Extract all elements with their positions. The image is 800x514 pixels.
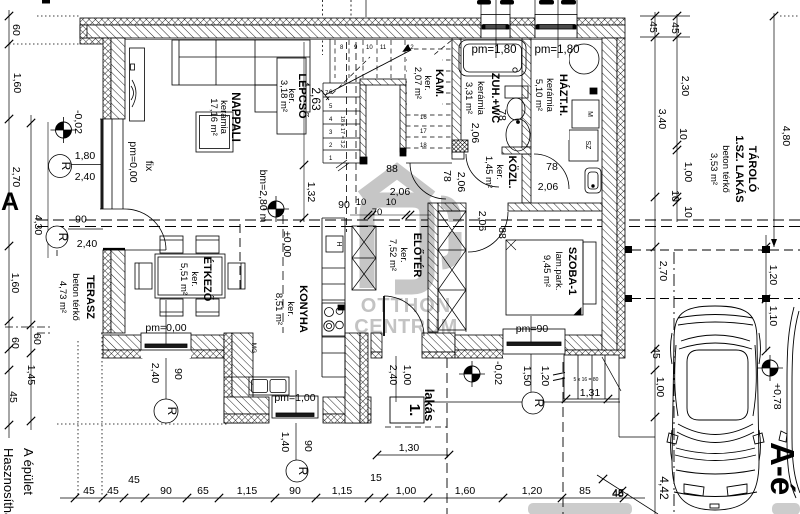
svg-text:1,10: 1,10	[767, 306, 779, 327]
svg-text:1,60: 1,60	[11, 73, 23, 94]
svg-text:MG: MG	[250, 343, 257, 353]
interior: ZUH/HAZT wall	[522, 38, 531, 147]
svg-text:beton térkő: beton térkő	[70, 273, 81, 321]
svg-text:R: R	[165, 407, 179, 416]
svg-text:45: 45	[612, 488, 624, 500]
coffee table	[196, 112, 233, 152]
svg-text:1,00: 1,00	[654, 377, 666, 398]
west terrace door 90	[125, 209, 166, 250]
svg-text:45: 45	[647, 21, 659, 33]
svg-text:pm=1,80: pm=1,80	[534, 44, 579, 56]
entrance level marker	[459, 361, 485, 387]
lower flight treads	[322, 83, 324, 163]
stair west boundary	[329, 39, 331, 83]
svg-text:85: 85	[579, 485, 591, 497]
svg-text:4,80: 4,80	[780, 126, 792, 147]
SZ appliance	[569, 130, 598, 161]
svg-text:1,20: 1,20	[539, 366, 551, 387]
svg-text:5 x 16 = 80: 5 x 16 = 80	[574, 377, 599, 383]
interior: KAM/ZUH wall	[452, 38, 461, 154]
bottom watermark slivers	[528, 503, 632, 514]
svg-text:2,40: 2,40	[387, 365, 399, 386]
svg-text:5,51 m²: 5,51 m²	[178, 263, 189, 295]
sink unit	[249, 377, 289, 395]
dotted leaders top left	[37, 15, 80, 17]
svg-text:1,45: 1,45	[25, 365, 37, 386]
svg-text:SZOBA-1: SZOBA-1	[566, 247, 578, 295]
svg-text:1.SZ. LAKÁS: 1.SZ. LAKÁS	[733, 135, 746, 202]
svg-text:1,40: 1,40	[279, 432, 291, 453]
dotted line top	[322, 0, 324, 55]
stove	[322, 303, 345, 336]
svg-text:9,45 m²: 9,45 m²	[541, 255, 552, 287]
svg-text:17,16 m²: 17,16 m²	[208, 98, 219, 136]
svg-text:ÉTKEZŐ: ÉTKEZŐ	[201, 257, 214, 302]
svg-text:90: 90	[160, 485, 172, 497]
svg-text:lam.park.: lam.park.	[553, 251, 564, 290]
svg-text:16: 16	[420, 115, 427, 121]
svg-text:3,53 m²: 3,53 m²	[708, 153, 719, 185]
north wall: brick (diag hatch)	[80, 25, 481, 38]
window W3 dining south (pm=0,00)	[141, 329, 191, 358]
svg-text:45: 45	[128, 474, 140, 486]
right lower dim line	[654, 252, 656, 514]
svg-text:2,30: 2,30	[679, 76, 691, 97]
walkway diagonal	[597, 475, 658, 514]
TERASZ	[50, 256, 100, 340]
dash line between dining and kitchen	[282, 215, 284, 333]
svg-text:1,00: 1,00	[396, 485, 417, 497]
R1	[49, 155, 72, 178]
chairs	[160, 236, 183, 253]
svg-text:CENTRUM: CENTRUM	[354, 316, 458, 338]
kam door 78	[410, 163, 446, 199]
svg-text:60: 60	[31, 333, 43, 345]
window W4 kitchen south (pm=1,00)	[272, 391, 318, 423]
svg-text:8,51 m²: 8,51 m²	[273, 293, 284, 325]
washbasin	[506, 119, 530, 151]
svg-text:10: 10	[677, 128, 689, 140]
svg-text:M: M	[586, 111, 593, 117]
svg-text:18 x 17 = 3,2: 18 x 17 = 3,2	[339, 116, 345, 148]
window fix west (pm=0,00)	[100, 119, 125, 209]
svg-text:78: 78	[441, 170, 453, 182]
kitchen counter strip	[321, 218, 323, 377]
east wall	[602, 38, 617, 350]
svg-text:kerámia: kerámia	[544, 78, 555, 113]
kam dashed treads (horizontal)	[406, 49, 452, 148]
M appliance	[572, 100, 599, 128]
svg-text:ker.: ker.	[494, 164, 505, 179]
left level marker -0,02	[51, 117, 77, 143]
svg-text:45: 45	[650, 347, 662, 359]
svg-text:1,15: 1,15	[237, 485, 258, 497]
svg-text:ker.: ker.	[285, 301, 296, 316]
dining table	[155, 254, 225, 298]
svg-text:NAPPALI: NAPPALI	[229, 92, 241, 142]
1,30 porch dim	[377, 454, 449, 456]
wardrobe A (2 cells X)	[352, 226, 376, 290]
svg-text:2,70: 2,70	[10, 167, 22, 188]
fridge H	[326, 236, 343, 252]
svg-text:90: 90	[289, 485, 301, 497]
bed szoba	[506, 240, 583, 315]
dotted projection lines below terrace	[77, 333, 79, 497]
tv unit	[130, 48, 145, 121]
svg-text:60: 60	[9, 337, 21, 349]
R2	[46, 226, 68, 248]
entry south wall	[371, 333, 382, 352]
svg-text:60: 60	[10, 24, 22, 36]
north wall: insulation (cross-hatch)	[80, 18, 481, 25]
svg-text:kerámia: kerámia	[475, 81, 486, 116]
svg-text:A épület: A épület	[21, 448, 36, 495]
break symbol	[336, 160, 347, 168]
interior: hall north band	[438, 203, 466, 211]
west wall lower segment	[103, 250, 111, 333]
wardrobe B (3 cells X)	[438, 211, 466, 330]
upper flight dashed treads (vertical)	[326, 40, 452, 100]
svg-text:pm=1,80: pm=1,80	[471, 44, 516, 56]
sofa	[172, 40, 310, 85]
svg-text:2,40: 2,40	[77, 238, 98, 250]
black piers	[360, 157, 367, 164]
fence posts	[625, 246, 632, 253]
svg-text:bm=2,80 m: bm=2,80 m	[257, 170, 269, 223]
svg-text:90: 90	[172, 368, 184, 380]
svg-text:88: 88	[496, 227, 508, 239]
szoba south wall	[455, 335, 503, 350]
svg-text:90: 90	[75, 214, 87, 226]
car 2 sliver	[779, 307, 800, 498]
svg-text:2,06: 2,06	[476, 211, 488, 232]
svg-text:R: R	[532, 399, 546, 408]
window W1 north (pm=1,80)	[481, 15, 510, 39]
hazt sink	[585, 168, 601, 193]
svg-text:KONYHA: KONYHA	[297, 285, 309, 333]
svg-text:10: 10	[682, 206, 694, 218]
svg-text:A: A	[1, 188, 19, 216]
shower tray	[459, 40, 526, 76]
svg-text:90: 90	[302, 440, 314, 452]
svg-text:ker.: ker.	[189, 271, 200, 286]
svg-text:1,50: 1,50	[521, 366, 533, 387]
OC logo roof	[362, 171, 431, 197]
svg-text:SZ: SZ	[584, 141, 591, 151]
OC logo body O	[367, 200, 427, 288]
svg-text:2,40: 2,40	[149, 363, 161, 384]
svg-text:18: 18	[420, 143, 427, 149]
svg-text:90: 90	[338, 199, 350, 211]
west wall upper segment	[103, 38, 111, 119]
stair dims	[303, 42, 305, 222]
svg-text:H: H	[335, 241, 342, 246]
stair core walls	[360, 79, 406, 85]
svg-text:HÁZT.H.: HÁZT.H.	[557, 74, 570, 116]
svg-text:2,06: 2,06	[469, 123, 481, 144]
boiler	[569, 44, 599, 74]
entrance steps	[564, 355, 619, 399]
svg-text:R: R	[56, 233, 70, 242]
svg-text:1,32: 1,32	[305, 182, 317, 203]
svg-text:TÁROLÓ: TÁROLÓ	[746, 146, 759, 193]
svg-text:A-é: A-é	[764, 442, 800, 495]
LÉPCSŐ label box	[277, 58, 306, 134]
svg-text:fix: fix	[143, 161, 155, 172]
svg-text:1,20: 1,20	[767, 265, 779, 286]
svg-text:45: 45	[7, 391, 19, 403]
svg-text:Hasznosítható: Hasznosítható	[1, 448, 16, 514]
wc	[505, 86, 528, 98]
svg-text:5,10 m²: 5,10 m²	[533, 79, 544, 111]
svg-text:1,15: 1,15	[332, 485, 353, 497]
kitchen south wall	[224, 397, 269, 414]
svg-text:11: 11	[380, 45, 387, 51]
svg-text:78: 78	[496, 109, 508, 121]
svg-text:45: 45	[107, 485, 119, 497]
svg-text:pm=90: pm=90	[516, 323, 549, 335]
svg-text:1,00: 1,00	[401, 365, 413, 386]
svg-text:65: 65	[197, 485, 209, 497]
svg-text:1,45 m²: 1,45 m²	[483, 156, 494, 188]
svg-text:2,40: 2,40	[75, 171, 96, 183]
svg-text:1,31: 1,31	[580, 387, 601, 399]
svg-text:pm=0,00: pm=0,00	[127, 141, 139, 182]
svg-text:1,30: 1,30	[399, 442, 420, 454]
svg-text:4,30: 4,30	[32, 215, 44, 236]
car 1	[667, 306, 764, 510]
svg-text:4,73 m²: 4,73 m²	[57, 281, 68, 313]
svg-text:15: 15	[370, 472, 382, 484]
zuh door 78	[466, 154, 499, 187]
svg-text:1,80: 1,80	[75, 150, 96, 162]
OC logo C	[441, 202, 455, 263]
svg-text:2,06: 2,06	[455, 172, 467, 193]
svg-text:ker.: ker.	[398, 247, 409, 262]
svg-text:R: R	[296, 467, 310, 476]
svg-text:3,18 m²: 3,18 m²	[278, 80, 289, 112]
kitchen east wall	[345, 333, 360, 423]
svg-text:10: 10	[366, 45, 373, 51]
dashed verticals lower area	[446, 358, 448, 514]
svg-text:1.: 1.	[406, 404, 423, 417]
svg-text:4,42: 4,42	[657, 476, 671, 500]
svg-text:R: R	[59, 162, 73, 171]
nappali inner wall line	[125, 39, 602, 41]
svg-text:1,60: 1,60	[9, 273, 21, 294]
kozl-elotér door 88	[468, 212, 508, 252]
terrace dash-dot boundary	[56, 250, 58, 333]
jog wall west of kitchen	[224, 333, 232, 423]
entrance door 1,00	[383, 296, 385, 336]
window W5 szoba south (pm=90)	[503, 326, 565, 358]
dashed verticals stair area	[346, 42, 348, 232]
1,20 / 1,10 / +0,78 column	[765, 235, 767, 352]
svg-text:2,70: 2,70	[657, 261, 669, 282]
svg-text:7,52 m²: 7,52 m²	[387, 239, 398, 271]
svg-text:78: 78	[546, 161, 558, 173]
section line A-A dashed pair	[37, 219, 800, 221]
svg-text:45: 45	[83, 485, 95, 497]
svg-text:3,31 m²: 3,31 m²	[463, 82, 474, 114]
svg-text:45: 45	[669, 22, 681, 34]
south wall west part (dining)	[103, 335, 142, 350]
svg-text:KAM.: KAM.	[433, 69, 445, 97]
svg-text:2,07 m²: 2,07 m²	[412, 67, 423, 99]
svg-text:2,06: 2,06	[538, 181, 559, 193]
svg-text:17: 17	[420, 129, 427, 135]
svg-text:TERASZ: TERASZ	[84, 275, 96, 319]
interior: ZUH/KOZL wall band	[452, 152, 464, 159]
HÁZT.H.	[533, 52, 569, 140]
svg-text:10: 10	[669, 190, 681, 202]
svg-text:3,40: 3,40	[656, 109, 668, 130]
svg-text:±0,00: ±0,00	[281, 231, 293, 257]
KAM	[407, 55, 442, 112]
vertical leader line left	[47, 122, 49, 258]
svg-text:pm=1,00: pm=1,00	[274, 392, 315, 404]
svg-text:-0,02: -0,02	[72, 110, 84, 134]
svg-text:OTTHON: OTTHON	[361, 295, 451, 317]
svg-text:-0,02: -0,02	[492, 361, 504, 385]
svg-text:1,60: 1,60	[455, 485, 476, 497]
svg-text:KÖZL.: KÖZL.	[506, 156, 519, 189]
direction arrow	[325, 50, 411, 95]
svg-text:beton térkő: beton térkő	[720, 145, 731, 193]
top-left corner block	[80, 38, 108, 44]
svg-text:+0,78: +0,78	[771, 383, 783, 410]
interior: elotér west wall	[428, 203, 438, 332]
fence dashed lines	[632, 249, 762, 251]
window W2 north (pm=1,80)	[535, 15, 577, 39]
svg-text:2,63: 2,63	[309, 87, 323, 111]
dotted top right	[780, 15, 800, 17]
hazt door 78	[534, 154, 569, 189]
svg-text:1,00: 1,00	[682, 162, 694, 183]
svg-text:1,20: 1,20	[522, 485, 543, 497]
